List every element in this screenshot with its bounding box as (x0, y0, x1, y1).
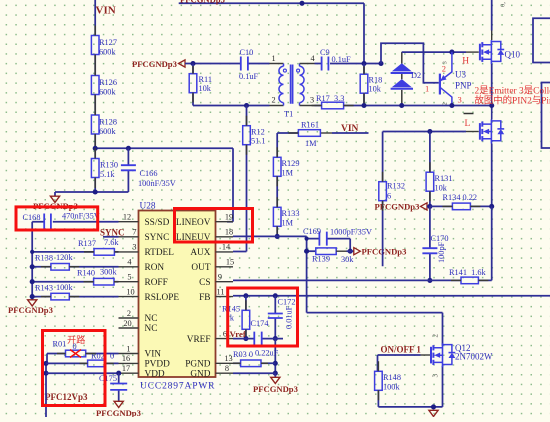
svg-text:NC: NC (145, 314, 158, 324)
resistor R140 (94, 278, 114, 285)
svg-text:NC: NC (145, 324, 158, 334)
power port PFCGNDp3 (chip gnd) (274, 373, 276, 377)
svg-text:R127: R127 (99, 38, 117, 47)
svg-text:R132: R132 (387, 182, 405, 191)
junction rail ROFF (30, 279, 35, 284)
junction collector rail y=105.5 (489, 103, 494, 108)
svg-text:SS/SD: SS/SD (145, 218, 170, 228)
pin 12 SS/SD (left) (119, 221, 139, 223)
svg-text:R18: R18 (369, 76, 383, 85)
power port PFCGNDp3 (left chain) (50, 196, 59, 202)
wire gate net H (402, 51, 466, 53)
svg-text:R137: R137 (78, 239, 96, 248)
svg-text:2: 2 (443, 102, 449, 105)
svg-text:Vref: Vref (230, 329, 247, 339)
highlight box C168 (16, 207, 98, 230)
svg-text:3: 3 (458, 95, 462, 105)
svg-text:R17 3.3: R17 3.3 (316, 94, 344, 103)
svg-text:0,: 0, (500, 2, 507, 7)
wire hook right mid (542, 83, 550, 149)
svg-text:0.1uF: 0.1uF (332, 55, 352, 64)
resistor R17 (322, 102, 344, 109)
wire ground rail y=192 (55, 192, 128, 196)
svg-text:9: 9 (218, 273, 222, 282)
capacitor C169 (307, 239, 351, 252)
wire PVDD row (46, 362, 119, 364)
junction C175 tap (116, 371, 121, 376)
svg-text:6: 6 (387, 192, 391, 201)
capacitor C10 (241, 57, 248, 71)
svg-text:R139: R139 (312, 255, 330, 264)
transistor U3 PNP (440, 52, 452, 106)
svg-text:开路: 开路 (67, 334, 85, 345)
svg-text:VREF: VREF (187, 335, 211, 345)
pin 6 VREF (right) (216, 338, 234, 340)
svg-text:3: 3 (432, 374, 440, 378)
junction rail RTDEL (30, 250, 34, 254)
component leads overlay (41, 26, 489, 401)
svg-text:R128: R128 (99, 118, 117, 127)
junction R139 left (304, 249, 309, 254)
svg-text:SYNC: SYNC (145, 233, 170, 243)
resistor R143 (51, 293, 69, 300)
svg-text:R133: R133 (282, 209, 300, 218)
pin 4 RON (left) (119, 266, 139, 268)
wire y=63.5 primary top (193, 63, 381, 65)
power port GND (Q12) (429, 410, 438, 416)
svg-text:VDD: VDD (145, 369, 165, 379)
capacitor C175 (118, 373, 120, 401)
svg-text:8: 8 (225, 364, 229, 373)
svg-text:PVDD: PVDD (145, 360, 171, 370)
svg-text:R134 0.22: R134 0.22 (443, 193, 478, 202)
svg-text:2: 2 (432, 334, 440, 338)
svg-text:PFCGNDp3: PFCGNDp3 (253, 384, 298, 394)
svg-text:18: 18 (225, 228, 233, 237)
svg-text:PFCGNDp3: PFCGNDp3 (375, 202, 420, 212)
svg-text:600k: 600k (99, 48, 116, 57)
pin 7 SYNC (left) (119, 236, 139, 238)
power port PFCGNDp3 (left rail) (28, 300, 37, 306)
svg-text:UCC2897APWR: UCC2897APWR (140, 382, 215, 392)
resistor R141 (461, 277, 478, 284)
pin 16 PVDD (left) (119, 362, 139, 364)
svg-text:故图中的PIN2与Pin: 故图中的PIN2与Pin (475, 94, 550, 106)
junction PVDD rail (43, 361, 48, 366)
svg-text:T1: T1 (284, 110, 293, 119)
resistor R148 (375, 371, 383, 390)
resistor R127 (91, 36, 99, 55)
svg-text:470nF/35V: 470nF/35V (62, 212, 100, 221)
highlight box C172/FB (228, 288, 298, 346)
wire FB net long (233, 295, 550, 297)
svg-text:VIN: VIN (341, 124, 359, 134)
capacitor C168 (32, 222, 118, 300)
svg-text:VIN: VIN (145, 350, 162, 360)
svg-text:R01: R01 (53, 340, 67, 349)
svg-text:100k: 100k (383, 383, 400, 392)
resistor R131 (429, 132, 431, 207)
resistor R02 (88, 360, 106, 367)
transistor Q11 MOSFET (466, 131, 479, 133)
wire R161 to R129 column (276, 133, 278, 157)
junction C172 top (273, 293, 278, 298)
junction R134 left node (427, 204, 432, 209)
resistor R134 (430, 205, 492, 207)
wire R129 to R133 (276, 176, 278, 207)
wire Q10 source to Q11 drain rail (491, 64, 493, 110)
svg-text:2: 2 (127, 309, 131, 318)
svg-text:Q10: Q10 (505, 50, 521, 60)
svg-text:5: 5 (127, 273, 131, 282)
resistor R18 (363, 64, 365, 106)
wire top rail y=3.3 (179, 3, 364, 63)
pin 13 PGND (right) (216, 362, 234, 364)
junction R130 bottom (93, 189, 98, 194)
pin 8 GND (right) (216, 372, 234, 374)
resistor R128 (91, 115, 99, 134)
svg-text:PFCGNDp3: PFCGNDp3 (362, 247, 407, 257)
junction C170 bottom (427, 278, 432, 283)
svg-text:0.1uF: 0.1uF (239, 72, 259, 81)
svg-text:RTDEL: RTDEL (145, 248, 175, 258)
svg-text:R148: R148 (383, 373, 401, 382)
wire ROFF row (32, 281, 118, 283)
svg-text:100k: 100k (56, 283, 73, 292)
junction D2 bottom (399, 103, 404, 108)
svg-text:ON/OFF 1: ON/OFF 1 (381, 345, 422, 355)
svg-text:R140: R140 (77, 269, 95, 278)
capacitor C174 (254, 332, 261, 346)
svg-text:600k: 600k (99, 88, 116, 97)
junction C172 bottom (273, 336, 278, 341)
wire y=105.5 primary bottom (193, 105, 492, 107)
capacitor C172 (274, 296, 276, 339)
transistor Q12 MOSFET (431, 343, 455, 367)
svg-text:R143: R143 (35, 284, 53, 293)
resistor R145 (245, 296, 247, 339)
junction R18 bottom (361, 103, 366, 108)
svg-text:R138: R138 (35, 254, 53, 263)
wire RON row (32, 266, 118, 268)
junction top rail (299, 1, 304, 6)
wire ON/OFF gate net (378, 355, 421, 371)
wire Q12 source rail (378, 366, 442, 407)
svg-text:13: 13 (224, 354, 232, 363)
junction PGND node (273, 361, 278, 366)
wire LINEUV to Q12 drain (307, 313, 443, 346)
resistor R11 (192, 64, 194, 106)
capacitor C170 (429, 206, 431, 280)
wire VREF net (233, 338, 283, 340)
svg-text:ROFF: ROFF (145, 278, 168, 288)
svg-text:RON: RON (145, 263, 165, 273)
pin 17 VDD (left) (119, 372, 139, 374)
pin 15 OUT (right) (216, 266, 234, 268)
svg-text:10k: 10k (199, 84, 212, 93)
svg-text:2是Emitter 3是Collec: 2是Emitter 3是Collec (475, 86, 550, 97)
svg-text:1M: 1M (282, 219, 294, 228)
pin 10 RSLOPE (left) (119, 296, 139, 298)
svg-text:19: 19 (225, 213, 233, 222)
svg-text:1M: 1M (282, 169, 294, 178)
svg-text:GND: GND (190, 369, 210, 379)
resistor R129 (273, 157, 281, 176)
junction U3 base branch (378, 61, 383, 66)
junction LINEUV node (275, 234, 280, 239)
svg-text:RSLOPE: RSLOPE (145, 293, 180, 303)
capacitor C166 (127, 148, 129, 192)
svg-text:VIN: VIN (96, 5, 116, 17)
svg-text:0: 0 (110, 352, 114, 361)
resistor R01 (open) (47, 353, 119, 355)
transistor Q10 MOSFET (466, 51, 479, 53)
svg-text:C10: C10 (240, 48, 254, 57)
wire RTDEL row (32, 251, 118, 253)
pin 14 AUX (right) (216, 251, 234, 253)
svg-text:R145: R145 (222, 305, 240, 314)
svg-text:C168: C168 (23, 213, 41, 222)
junction GND node (273, 371, 278, 376)
pin 3 RTDEL (left) (119, 251, 139, 253)
diode D2 dual (391, 52, 413, 105)
svg-text:120k: 120k (56, 253, 73, 262)
pin 11 FB (right) (216, 296, 234, 298)
wire Q10 drain to top (491, 0, 493, 31)
junction rail RSLOPE (30, 294, 35, 299)
resistor R133 (273, 207, 281, 226)
svg-text:1: 1 (425, 84, 429, 94)
svg-text:D2: D2 (411, 71, 421, 80)
svg-text:3: 3 (132, 243, 136, 252)
svg-text:100nF/35V: 100nF/35V (138, 179, 176, 188)
svg-text:600k: 600k (99, 127, 116, 136)
junction VDD rail (43, 371, 48, 376)
svg-text:PFC12Vp3: PFC12Vp3 (45, 392, 88, 402)
svg-text:PNP: PNP (455, 81, 472, 91)
wire C172 bottom to GND rail (274, 339, 276, 374)
junction T1 pin2 / R12 (244, 103, 249, 108)
pin 1 VIN (left) (119, 353, 139, 355)
wire R133 to LINEUV (276, 226, 278, 236)
svg-text:14: 14 (222, 243, 231, 252)
junction R11 top (190, 61, 195, 66)
junction node R128/R130 (93, 146, 98, 151)
svg-text:C172: C172 (278, 298, 296, 307)
junction rail RON (30, 264, 35, 269)
junction U3 emitter (449, 50, 454, 55)
capacitor C9 (322, 57, 329, 71)
resistor R132 (382, 132, 384, 267)
resistor R03 (233, 362, 275, 364)
svg-text:C169: C169 (303, 227, 321, 236)
resistor R137 (94, 249, 114, 256)
svg-text:100pF: 100pF (437, 241, 446, 263)
junction C166 top (126, 146, 131, 151)
svg-text:51.1: 51.1 (251, 137, 266, 146)
wire Q11 source down rail (491, 144, 493, 207)
svg-text:3: 3 (443, 61, 449, 64)
resistor R139 (307, 250, 316, 252)
svg-text:FB: FB (199, 293, 210, 303)
svg-text:16: 16 (122, 354, 130, 363)
svg-text:R03 0: R03 0 (233, 350, 253, 359)
highlight box R01/PFC12V (43, 331, 106, 406)
svg-text:R126: R126 (99, 78, 117, 87)
svg-text:H: H (462, 57, 469, 67)
wire supply rail x=46 (46, 354, 47, 418)
wire to U3 base (381, 43, 439, 83)
svg-text:1: 1 (272, 54, 276, 63)
svg-text:3: 3 (310, 96, 314, 105)
resistor R138 (51, 264, 69, 271)
resistor R130 (91, 159, 99, 178)
svg-text:2N7002W: 2N7002W (455, 352, 493, 362)
power port PFCGNDp3 (C175) (114, 401, 123, 407)
wire node y=148 to LINEOV (95, 148, 233, 221)
pin 9 CS (right) (216, 281, 234, 283)
highlight box LINEOV/LINEUV (175, 209, 253, 243)
svg-text:R12: R12 (251, 128, 265, 137)
junction R139 right (348, 249, 353, 254)
svg-text:PGND: PGND (185, 360, 211, 370)
junction R134 right node (489, 204, 494, 209)
pin 18 LINEUV (right) (216, 236, 234, 238)
svg-text:R11: R11 (199, 75, 213, 84)
junction ground node Q12 (431, 404, 436, 409)
svg-text:CS: CS (199, 278, 210, 288)
svg-text:C166: C166 (140, 169, 158, 178)
svg-text:11: 11 (217, 287, 225, 296)
svg-text:0.01uF: 0.01uF (285, 305, 294, 329)
wire Q11 gate net (383, 131, 466, 133)
power port PFCGNDp3 (R139) (347, 250, 354, 252)
svg-text:10: 10 (126, 287, 134, 296)
svg-text:12: 12 (123, 213, 131, 222)
svg-text:PFCGNDp3: PFCGNDp3 (8, 305, 53, 315)
svg-text:R141 1.6k: R141 1.6k (449, 268, 486, 277)
svg-text:R131: R131 (435, 174, 453, 183)
wire LINEUV net (233, 236, 307, 312)
svg-text:LINEOV: LINEOV (176, 218, 211, 228)
wire GND row (233, 372, 275, 374)
svg-text:15: 15 (226, 258, 234, 267)
svg-text:10k: 10k (435, 184, 448, 193)
junction R131 top (427, 129, 432, 134)
junction R18 top (361, 61, 366, 66)
svg-text:R130: R130 (100, 161, 118, 170)
svg-text:1000pF/35V: 1000pF/35V (330, 228, 372, 237)
resistor R161 (320, 132, 332, 134)
svg-text:C175: C175 (99, 374, 117, 383)
svg-text:C170: C170 (431, 234, 449, 243)
svg-text:1: 1 (126, 344, 130, 353)
svg-text:C9: C9 (320, 48, 330, 57)
junction R145 bottom (243, 336, 248, 341)
svg-text:PFCGNDp3: PFCGNDp3 (180, 0, 225, 5)
wire CS net (233, 206, 492, 280)
svg-text:PFCGNDp3: PFCGNDp3 (132, 59, 177, 69)
svg-text:1M: 1M (305, 139, 317, 148)
svg-text:10k: 10k (369, 85, 382, 94)
wire RSLOPE row (32, 296, 118, 298)
wire hook right top (533, 18, 550, 62)
svg-text:20: 20 (123, 319, 131, 328)
svg-text:R161: R161 (301, 121, 319, 130)
pin 20 NC (left) (119, 327, 139, 329)
svg-text:5.1k: 5.1k (100, 170, 115, 179)
wire VIN vertical rail x=95 (94, 0, 96, 192)
IC U28 UCC2897APWR body (139, 211, 216, 378)
svg-text:U3: U3 (455, 70, 466, 80)
resistor R126 (91, 76, 99, 95)
svg-text:AUX: AUX (190, 248, 210, 258)
wire VDD row (46, 372, 119, 374)
svg-text:U28: U28 (140, 202, 156, 212)
svg-text:17: 17 (122, 364, 130, 373)
svg-text:300k: 300k (100, 268, 117, 277)
svg-text:7.6k: 7.6k (104, 238, 119, 247)
resistor R12 (233, 106, 247, 252)
svg-text:L: L (465, 119, 471, 129)
svg-text:7: 7 (132, 228, 136, 237)
transformer T1 (270, 64, 315, 106)
pin 2 NC (left) (119, 317, 139, 319)
svg-text:C174: C174 (251, 319, 270, 328)
svg-text:PFCGNDp3: PFCGNDp3 (96, 408, 141, 417)
svg-text:2: 2 (272, 96, 276, 105)
svg-text:R129: R129 (282, 159, 300, 168)
junction U3 collector (449, 103, 454, 108)
junction R145 top (243, 293, 248, 298)
svg-text:30k: 30k (341, 255, 354, 264)
svg-text:OUT: OUT (191, 263, 210, 273)
pin 5 ROFF (left) (119, 281, 139, 283)
pin 19 LINEOV (right) (216, 221, 234, 223)
